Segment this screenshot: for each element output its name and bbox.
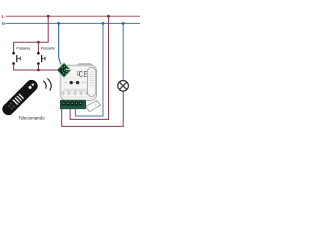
scalloped terminal cover <box>64 89 88 91</box>
wire L line <box>6 15 141 17</box>
wire L drop right (to module L terminal) <box>70 16 108 119</box>
node junction on L <box>107 15 110 18</box>
faint print row under tab <box>66 68 74 71</box>
wire feed from L to pushbutton rail <box>14 16 49 52</box>
node junction on N <box>57 22 60 25</box>
tiny print left of knobs <box>65 82 68 84</box>
wire N drop right (to module N terminal) <box>75 23 103 116</box>
top clip tab <box>76 64 93 67</box>
wireless waves <box>43 78 51 90</box>
node junction on L <box>47 15 50 18</box>
padlock icon <box>92 91 94 94</box>
WEEE bin icon <box>77 72 81 76</box>
node junction bottom rail <box>37 69 40 72</box>
node junction on N <box>122 22 125 25</box>
svg-text:Telecomando: Telecomando <box>18 115 45 120</box>
svg-text:CE: CE <box>79 69 88 79</box>
wire stub right button bottom <box>37 64 39 70</box>
wire N to lamp <box>122 23 124 80</box>
antenna diamond logo <box>57 63 70 77</box>
pushbutton S1 <box>12 52 20 65</box>
module inner bottom edge line <box>62 96 94 98</box>
CE mark <box>79 69 88 79</box>
node junction on N <box>102 22 105 25</box>
terminal screws row <box>62 92 89 95</box>
screwdriver blade <box>86 101 101 112</box>
wire N drop to module corner <box>59 23 61 64</box>
wire stub to right button <box>37 42 39 52</box>
wire N line <box>6 22 141 24</box>
svg-text:Pulsante: Pulsante <box>16 47 30 51</box>
remote control <box>0 78 39 117</box>
faint print row on face <box>64 77 85 80</box>
terminal block green <box>60 100 85 109</box>
node junction on rail <box>37 41 40 44</box>
pushbutton S2 <box>37 52 45 65</box>
knob buttons <box>70 81 73 84</box>
dash between knobs <box>74 81 75 84</box>
svg-text:Pulsante: Pulsante <box>41 47 55 51</box>
dimmer module U1 body <box>60 64 96 101</box>
octagonal label sticker <box>87 68 95 97</box>
svg-text:L: L <box>2 14 5 19</box>
wire pushbutton bottom rail to module <box>14 64 58 70</box>
tiny print right of knobs <box>82 81 87 83</box>
wire lamp return to module output terminal <box>62 91 123 126</box>
lamp E1 <box>118 81 129 92</box>
